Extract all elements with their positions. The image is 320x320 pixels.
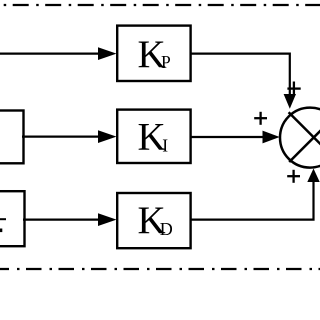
arrowhead into KD: [98, 213, 117, 226]
svg-text:P: P: [161, 52, 171, 72]
wire: KD output to summing junction: [191, 181, 314, 220]
arrowhead into KP: [98, 47, 117, 60]
boundary dash-dot line top: [0, 4, 320, 6]
plus sign (left input): [254, 112, 267, 125]
block KD: [117, 193, 190, 248]
fraction bar (clipped d/dt label in row-3 box): [0, 218, 6, 220]
arrowhead into summing junction (bottom): [307, 169, 319, 183]
summing junction X stroke (down-right): [289, 112, 320, 158]
wire: input to KI: [22, 136, 100, 138]
arrowhead into summing junction (top): [284, 94, 296, 109]
wire: input to KD: [23, 219, 100, 221]
block KI: [117, 110, 190, 163]
svg-text:I: I: [162, 135, 168, 155]
summing junction X stroke (up-right): [289, 116, 320, 162]
fraction denominator mark (clipped): [0, 229, 2, 233]
block KP: [117, 26, 190, 81]
arrowhead into summing junction (left): [263, 131, 280, 144]
wire: KI output to summing junction: [191, 136, 264, 138]
input box (row 2, clipped at left edge): [0, 111, 24, 164]
boundary dash-dot line bottom: [0, 268, 320, 270]
plus sign (top input): [287, 82, 300, 96]
wire: error input to KP: [0, 52, 100, 54]
arrowhead into KI: [98, 130, 117, 143]
svg-text:D: D: [160, 219, 173, 239]
summing junction circle: [280, 108, 320, 168]
input box (row 3, clipped at left edge): [0, 191, 25, 246]
plus sign (bottom input): [287, 170, 300, 183]
wire: KP output to summing junction: [191, 54, 290, 95]
